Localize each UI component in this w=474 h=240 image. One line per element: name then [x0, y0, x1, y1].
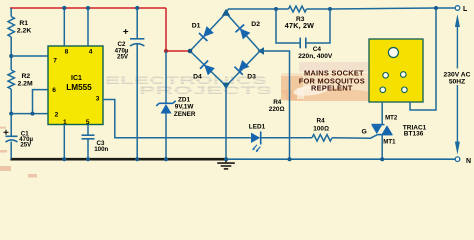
svg-text:LM555: LM555	[66, 83, 92, 92]
wire: socket to triac MT2	[381, 102, 383, 125]
label TRIAC1 BT136	[403, 124, 427, 137]
wire: C2 top lead	[136, 8, 138, 39]
resistor R3	[289, 6, 307, 12]
svg-text:G: G	[362, 129, 367, 136]
wire: left rail R2 to C1	[10, 89, 12, 136]
wire: top AC line from bridge	[226, 9, 289, 13]
diode D4	[200, 60, 215, 75]
svg-text:ZENER: ZENER	[174, 111, 196, 118]
svg-text:ZD1: ZD1	[178, 97, 191, 104]
resistor R1	[8, 17, 14, 38]
node: L junction dot	[434, 6, 438, 10]
wire: pin 2	[11, 113, 48, 115]
resistor R2	[8, 70, 14, 89]
svg-text:4: 4	[89, 48, 93, 55]
node: MT1 bus dot	[380, 157, 384, 161]
svg-text:D4: D4	[193, 73, 202, 80]
svg-text:N: N	[466, 158, 471, 165]
svg-text:IC1: IC1	[71, 75, 82, 82]
resistor R4 100	[312, 135, 332, 142]
wire: left rail above R1	[10, 8, 12, 17]
wire: left rail R1 to R2	[10, 37, 12, 70]
node: C4 right dot	[328, 7, 332, 11]
node: junction pin6 tie	[31, 112, 35, 116]
node: C2 bus dot	[135, 157, 139, 161]
label C4 220n, 400V	[298, 46, 333, 60]
svg-text:230V AC: 230V AC	[444, 71, 471, 78]
triac TRIAC1 BT136	[372, 125, 393, 135]
socket hole mid-right	[401, 72, 407, 78]
svg-text:2.2K: 2.2K	[17, 27, 31, 34]
node: bridge bottom vertex blob	[222, 83, 230, 90]
node: N branch bus dot	[288, 157, 292, 161]
node: bridge bottom bus dot	[224, 157, 228, 161]
node: C3 bus dot	[86, 157, 90, 161]
label R3 47K, 2W	[285, 16, 314, 30]
LED1	[251, 132, 261, 153]
label MAINS SOCKET FOR MOSQUITOS REPELENT	[299, 69, 365, 93]
wire: red drop to bridge node	[166, 8, 190, 51]
svg-text:R2: R2	[22, 73, 31, 80]
wire: triac MT1 to N line	[381, 135, 383, 160]
label ZD1 9V,1W ZENER	[174, 97, 196, 118]
wire: pin 8 to rail	[63, 8, 65, 46]
mains socket box	[369, 39, 423, 102]
capacitor C1	[6, 136, 18, 142]
wire: bridge right to N branch	[260, 51, 290, 159]
node: bridge left vertex dot	[188, 49, 193, 54]
label C3 100n	[94, 140, 108, 153]
svg-text:R4: R4	[317, 117, 326, 124]
watermark EFY orange logo	[281, 62, 372, 101]
wire: ground bus black	[10, 158, 228, 161]
wire: N line blue	[228, 158, 455, 160]
svg-text:D2: D2	[251, 21, 260, 28]
label 230V AC 50HZ	[441, 69, 473, 86]
svg-text:MT1: MT1	[383, 139, 396, 146]
node: pin4 rail dot	[86, 6, 90, 10]
node: pin8 rail dot	[62, 6, 66, 10]
wire: C4 branch left	[276, 9, 300, 43]
svg-text:3: 3	[96, 96, 100, 103]
svg-text:LED1: LED1	[249, 124, 266, 131]
label C1 470u 25V	[19, 130, 33, 148]
wire: C4 branch right	[306, 9, 330, 43]
wire: pin 6	[33, 90, 49, 114]
ground	[217, 161, 235, 169]
svg-text:47K, 2W: 47K, 2W	[285, 21, 314, 30]
wire: C3 to bus	[87, 139, 89, 159]
wire: top AC line to L	[307, 8, 456, 9]
node: C4 left dot	[274, 7, 278, 11]
svg-text:2.2M: 2.2M	[18, 81, 33, 88]
wire: R4 to gate	[332, 135, 378, 139]
label R1 2.2K	[17, 20, 31, 35]
socket hole bottom-right	[402, 87, 408, 93]
svg-text:220Ω: 220Ω	[269, 106, 285, 113]
node: C2 rail dot	[135, 6, 139, 10]
svg-text:R1: R1	[19, 20, 28, 27]
svg-text:D3: D3	[247, 73, 256, 80]
node: bridge top vertex blob	[222, 9, 230, 16]
wire: +V red top rail	[10, 7, 166, 9]
node: red junction at zener top	[164, 49, 168, 53]
wire: pin 1 to bus	[63, 125, 65, 160]
svg-text:MT2: MT2	[385, 114, 398, 121]
socket hole bottom-left	[380, 87, 386, 93]
capacitor C2	[130, 39, 144, 46]
terminal N	[455, 157, 460, 162]
svg-text:8: 8	[65, 49, 69, 56]
diode D3	[234, 59, 249, 74]
svg-text:25V: 25V	[20, 142, 32, 149]
wire: zener column upper	[165, 51, 167, 103]
label R2 2.2M	[18, 73, 33, 88]
svg-text:100Ω: 100Ω	[313, 126, 329, 133]
diode D1	[199, 26, 214, 41]
node: bridge right vertex blob	[258, 47, 264, 54]
svg-text:25V: 25V	[117, 53, 129, 60]
wire: LED to R4	[261, 137, 312, 139]
230V AC arrow	[455, 14, 460, 155]
wire: C1 to ground bus	[10, 142, 12, 159]
svg-text:REPELENT: REPELENT	[311, 84, 353, 93]
svg-text:PROJECTS: PROJECTS	[139, 85, 272, 97]
watermark red fragments	[0, 127, 37, 178]
zener ZD1	[156, 101, 175, 114]
node: zener bus dot	[164, 157, 168, 161]
socket hole top	[388, 48, 398, 58]
node: junction pins 2/6	[9, 112, 13, 116]
svg-text:BT136: BT136	[404, 131, 424, 138]
capacitor C4	[300, 38, 306, 49]
svg-text:R4: R4	[273, 99, 282, 106]
wire: C2 to bus	[136, 44, 138, 159]
wire: pin 4 to rail	[87, 8, 89, 46]
svg-text:50HZ: 50HZ	[449, 79, 465, 86]
wire: bridge bottom to bus	[225, 86, 227, 159]
svg-text:D1: D1	[192, 22, 201, 29]
label + C1	[4, 130, 9, 135]
label R4 220	[269, 99, 285, 113]
wire: bridge diamond edges	[190, 13, 260, 86]
watermark ELECTRONICS PROJECTS	[103, 75, 274, 97]
wire: L drop to socket	[410, 8, 436, 110]
wire: pin 7	[11, 55, 48, 57]
node: pin1 bus dot	[62, 157, 66, 161]
diode D2	[235, 25, 250, 40]
label R4 100	[313, 117, 329, 132]
svg-text:7: 7	[53, 57, 57, 64]
svg-text:L: L	[463, 6, 468, 13]
wire: pin 3 output run	[103, 100, 251, 138]
svg-text:100n: 100n	[94, 146, 108, 153]
wire: zener to bus	[165, 114, 167, 160]
label + C2	[123, 29, 128, 34]
svg-text:6: 6	[52, 87, 56, 94]
op-amp/timer IC1 LM555 body	[48, 46, 103, 125]
svg-text:220n, 400V: 220n, 400V	[298, 53, 333, 60]
svg-text:2: 2	[55, 112, 59, 119]
wire: pin 5 to C3	[87, 125, 89, 136]
terminal L	[455, 6, 460, 11]
socket hole mid-left	[383, 73, 389, 79]
svg-text:9V,1W: 9V,1W	[175, 104, 195, 111]
capacitor C3	[82, 135, 95, 139]
node: junction pin7	[9, 54, 13, 58]
label C2 470u 25V	[115, 41, 129, 61]
